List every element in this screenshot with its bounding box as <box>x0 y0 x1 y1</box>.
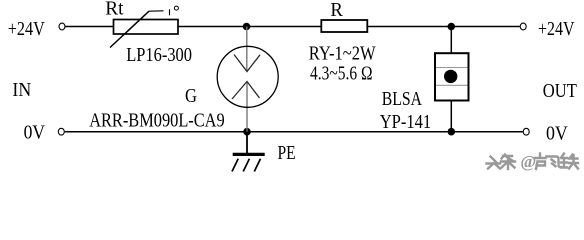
svg-text:LP16-300: LP16-300 <box>126 44 192 66</box>
svg-text:IN: IN <box>12 79 31 101</box>
svg-text:RY-1~2W: RY-1~2W <box>309 43 376 65</box>
svg-text:G: G <box>185 85 197 107</box>
svg-text:+24V: +24V <box>8 18 45 40</box>
svg-text:PE: PE <box>278 142 296 164</box>
svg-text:BLSA: BLSA <box>382 88 423 110</box>
svg-text:4.3~5.6 Ω: 4.3~5.6 Ω <box>310 63 373 85</box>
svg-text:0V: 0V <box>546 122 568 144</box>
svg-text:ARR-BM090L-CA9: ARR-BM090L-CA9 <box>89 109 225 131</box>
svg-text:@: @ <box>520 152 536 171</box>
svg-text:OUT: OUT <box>543 80 577 102</box>
svg-text:Rt: Rt <box>105 0 124 20</box>
svg-text:+24V: +24V <box>538 18 575 40</box>
svg-text:R: R <box>330 0 343 21</box>
svg-text:YP-141: YP-141 <box>380 111 432 133</box>
svg-text:0V: 0V <box>24 122 46 144</box>
